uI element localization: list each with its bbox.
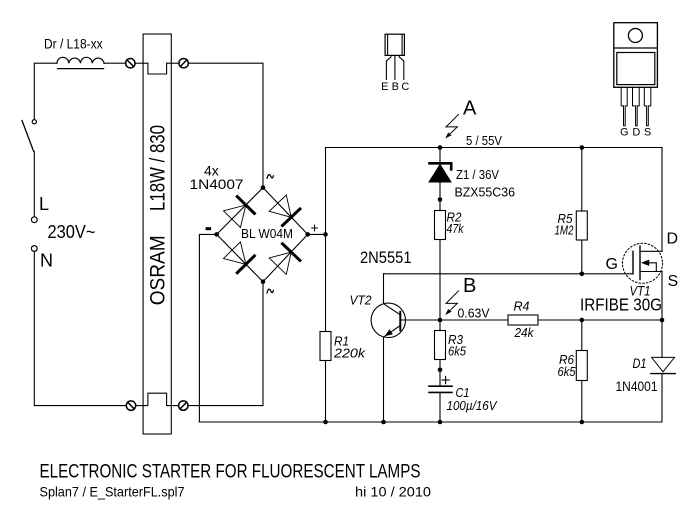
junction: bridge plus node bbox=[305, 232, 310, 237]
bridge edge bottom-left bbox=[217, 234, 263, 281]
junction: bridge minus node bbox=[214, 232, 219, 237]
bridge diode D-b triangle (top to right) bbox=[269, 195, 291, 217]
svg-text:Splan7 / E_StarterFL.spl7: Splan7 / E_StarterFL.spl7 bbox=[40, 484, 185, 500]
svg-text:A: A bbox=[463, 98, 477, 120]
mosfet VT1 source tap bbox=[640, 271, 662, 273]
transistor VT2 collector stroke bbox=[384, 304, 401, 315]
mosfet VT1 channel bar bbox=[639, 246, 641, 279]
resistor R4 body bbox=[508, 315, 538, 325]
wire: electrode to tube wall top-left bbox=[135, 62, 143, 64]
wire: plus rail top corner bbox=[326, 148, 663, 235]
package TO-220 mounting hole bbox=[628, 29, 642, 43]
wire: gate rail VT2 collector to VT1 gate bbox=[384, 273, 634, 275]
wire: C1 to ground rail bbox=[439, 392, 441, 422]
transistor VT2 emitter stroke bbox=[384, 326, 400, 337]
svg-text:IRFIBE 30G: IRFIBE 30G bbox=[580, 295, 662, 315]
package TO-220 pin G bbox=[621, 87, 627, 126]
resistor R5 body bbox=[576, 211, 587, 240]
wire: VT2 emitter to ground rail bbox=[383, 337, 385, 422]
svg-text:S: S bbox=[668, 273, 679, 290]
junction: bridge AC bottom node bbox=[261, 279, 266, 284]
lamp top-left electrode circle bbox=[126, 59, 135, 68]
package TO-220 inner rect bbox=[617, 53, 655, 85]
junction: node A bbox=[438, 145, 443, 150]
diode D1 triangle bbox=[652, 357, 675, 371]
label - minus bbox=[206, 227, 212, 230]
junction: R4-R6 divider node bbox=[580, 318, 585, 323]
wire: VT2 base to node B bbox=[400, 319, 440, 321]
junction: plus rail node bbox=[323, 232, 328, 237]
package TO-92 pin B bbox=[394, 55, 396, 79]
svg-text:6k5: 6k5 bbox=[558, 364, 577, 379]
inductor Dr core bar bbox=[58, 68, 104, 70]
junction: zener-R2 node bbox=[438, 197, 443, 202]
package TO-92 pin C bbox=[399, 55, 404, 79]
zener Z1 cathode bar with hook bbox=[430, 163, 452, 169]
svg-text:G: G bbox=[620, 127, 629, 139]
svg-text:L18W / 830: L18W / 830 bbox=[147, 125, 170, 211]
junction: ground rail C1 bbox=[438, 420, 443, 425]
bridge diode D-d cathode bar bbox=[283, 244, 300, 261]
diode D1 cathode bar bbox=[651, 373, 675, 375]
label ~ AC top bbox=[267, 175, 274, 179]
bridge BL W04M edge top-left bbox=[217, 188, 263, 235]
svg-text:2N5551: 2N5551 bbox=[360, 249, 412, 267]
wire: gate rail corner down to VT2 collector bbox=[383, 274, 385, 304]
wire: R1 to ground rail bbox=[325, 361, 327, 423]
capacitor C1 plus sign bbox=[442, 376, 449, 383]
terminal N bbox=[31, 246, 37, 252]
resistor R6 body bbox=[576, 351, 587, 381]
svg-text:220k: 220k bbox=[333, 346, 367, 361]
probe bolt at node A bbox=[446, 114, 459, 137]
wire: inductor to lamp top-left terminal bbox=[104, 62, 126, 64]
wire: electrode to tube wall bottom-left bbox=[136, 405, 143, 407]
svg-text:ELECTRONIC STARTER FOR FLUORES: ELECTRONIC STARTER FOR FLUORESCENT LAMPS bbox=[40, 462, 421, 483]
svg-text:OSRAM: OSRAM bbox=[147, 235, 170, 305]
svg-text:S: S bbox=[644, 127, 651, 139]
junction: ground rail R6 bbox=[580, 420, 585, 425]
wire: R4 to divider node to source node bbox=[538, 319, 662, 321]
svg-text:C: C bbox=[401, 81, 409, 93]
lamp top filament bbox=[143, 63, 171, 74]
resistor R3 body bbox=[435, 331, 446, 360]
mosfet VT1 gate bar bbox=[632, 251, 634, 273]
bridge edge bottom-right bbox=[263, 234, 308, 281]
svg-text:5 / 55V: 5 / 55V bbox=[466, 133, 502, 148]
wire: lamp bottom-right to bridge AC bottom bbox=[188, 284, 263, 406]
svg-text:Dr / L18-xx: Dr / L18-xx bbox=[44, 36, 103, 52]
wire: mains L to switch bbox=[34, 63, 57, 119]
transistor VT2 circle bbox=[371, 303, 405, 337]
probe bolt B tip arrow bbox=[446, 309, 452, 315]
wire: S node to D1 anode bbox=[661, 320, 663, 357]
resistor R2 body bbox=[435, 211, 446, 240]
mosfet VT1 body arrow head bbox=[641, 260, 649, 266]
transistor VT2 base bar bbox=[399, 312, 401, 331]
junction: R5 gate node bbox=[580, 272, 585, 277]
wire: N terminal to lamp bottom-left bbox=[34, 252, 126, 406]
package TO-92 inner right line bbox=[401, 34, 403, 55]
lamp tube body bbox=[143, 34, 171, 434]
terminal L bbox=[31, 217, 37, 223]
svg-text:R4: R4 bbox=[514, 299, 530, 314]
svg-text:D: D bbox=[632, 127, 640, 139]
wire: D1 cathode to ground rail bbox=[661, 374, 663, 422]
wire: source down to S node bbox=[661, 272, 663, 321]
wire: switch to L terminal bbox=[33, 152, 35, 217]
resistor R1 body bbox=[320, 332, 331, 361]
svg-text:E: E bbox=[381, 81, 388, 93]
mosfet VT1 circle (dotted) bbox=[623, 243, 663, 283]
svg-text:VT2: VT2 bbox=[350, 293, 373, 308]
svg-text:BL W04M: BL W04M bbox=[241, 226, 293, 241]
package TO-220 pin D bbox=[633, 87, 640, 126]
svg-text:47k: 47k bbox=[447, 221, 465, 236]
wire: drain up to top rail bbox=[661, 148, 663, 252]
inductor Dr winding arcs bbox=[57, 57, 104, 63]
svg-text:Z1 / 36V: Z1 / 36V bbox=[456, 167, 499, 182]
junction: node B bbox=[438, 318, 443, 323]
wire: divider node down to R6 bbox=[581, 320, 583, 351]
wire: top rail down to R5 bbox=[581, 148, 583, 212]
svg-text:hi 10 / 2010: hi 10 / 2010 bbox=[355, 484, 431, 500]
transistor VT2 emitter arrow bbox=[385, 329, 393, 336]
switch S1 top terminal circle bbox=[32, 120, 36, 124]
bridge edge top-right bbox=[263, 188, 308, 235]
capacitor C1 bottom plate bbox=[429, 391, 452, 393]
bridge diode D-c triangle (left to bottom) bbox=[224, 242, 246, 264]
wire: tube wall to bottom-right electrode bbox=[171, 405, 178, 407]
wire: bottom ground rail bbox=[199, 421, 662, 423]
mosfet VT1 body arrow shaft bbox=[648, 263, 656, 272]
wire: R3 to C1 bbox=[439, 360, 441, 387]
wire: node B to R3 bbox=[439, 320, 441, 331]
junction: ground rail VT2 emitter bbox=[381, 420, 386, 425]
bridge diode D-a cathode bar bbox=[237, 197, 254, 214]
capacitor C1 top plate bbox=[429, 385, 452, 387]
package TO-92 inner left line bbox=[387, 34, 389, 55]
svg-text:+: + bbox=[311, 220, 319, 236]
package TO-220 tab separation line bbox=[614, 47, 658, 49]
svg-text:1M2: 1M2 bbox=[555, 223, 575, 238]
wire: bridge plus output bbox=[310, 233, 326, 235]
bridge diode D-b cathode bar bbox=[283, 209, 300, 226]
svg-text:1N4007: 1N4007 bbox=[190, 176, 244, 192]
svg-text:N: N bbox=[40, 251, 53, 271]
junction: ground rail R1 bbox=[323, 420, 328, 425]
wire: tube wall to top-right electrode bbox=[171, 62, 179, 64]
svg-text:0.63V: 0.63V bbox=[458, 306, 490, 321]
svg-text:D1: D1 bbox=[633, 356, 647, 371]
junction: R5 top node bbox=[580, 145, 585, 150]
wire: node A drop to zener bbox=[439, 148, 441, 163]
wire: node B to R4 bbox=[440, 319, 508, 321]
svg-text:B: B bbox=[392, 81, 399, 93]
lamp bottom-right electrode circle bbox=[179, 401, 188, 410]
svg-text:1N4001: 1N4001 bbox=[616, 379, 658, 394]
svg-text:BZX55C36: BZX55C36 bbox=[455, 185, 516, 200]
probe bolt at node B bbox=[446, 291, 459, 314]
svg-text:230V~: 230V~ bbox=[48, 222, 96, 242]
bridge diode D-c cathode bar bbox=[237, 256, 254, 273]
lamp bottom filament bbox=[143, 393, 171, 405]
svg-text:G: G bbox=[606, 256, 618, 273]
wire: R2 down to node B (crosses gate rail) bbox=[439, 240, 441, 321]
wire: R5 to gate rail bbox=[581, 240, 583, 274]
junction: source node bbox=[660, 318, 665, 323]
svg-text:6k5: 6k5 bbox=[448, 344, 467, 359]
label ~ AC bottom bbox=[267, 289, 274, 293]
lamp top-right electrode circle bbox=[179, 59, 188, 68]
package TO-92 body bbox=[385, 34, 404, 55]
probe bolt A tip arrow bbox=[446, 133, 452, 139]
wire: zener to R2 bbox=[439, 182, 441, 211]
package TO-220 outer body bbox=[614, 23, 658, 88]
bridge diode D-d triangle (bottom to right) bbox=[269, 252, 291, 274]
wire: lamp top-right to bridge AC top bbox=[188, 63, 263, 185]
package TO-92 pin E bbox=[386, 55, 391, 79]
svg-text:24k: 24k bbox=[514, 325, 535, 340]
wire: plus node down to R1 bbox=[325, 234, 327, 331]
svg-text:L: L bbox=[39, 194, 49, 214]
svg-text:D: D bbox=[667, 231, 679, 248]
svg-text:100µ/16V: 100µ/16V bbox=[447, 398, 498, 413]
switch S1 open blade bbox=[22, 121, 34, 152]
package TO-220 pin S bbox=[644, 87, 651, 126]
mosfet VT1 drain tap bbox=[640, 250, 662, 252]
junction: bridge AC top node bbox=[261, 185, 266, 190]
bridge diode D-a triangle (left to top) bbox=[224, 205, 246, 228]
svg-text:B: B bbox=[463, 275, 476, 297]
junction: R3-C1 node bbox=[438, 368, 443, 373]
zener Z1 triangle bbox=[429, 165, 451, 182]
wire: bridge minus output bbox=[199, 234, 214, 422]
lamp bottom-left electrode circle bbox=[126, 401, 135, 410]
wire: R6 to ground rail bbox=[581, 381, 583, 423]
